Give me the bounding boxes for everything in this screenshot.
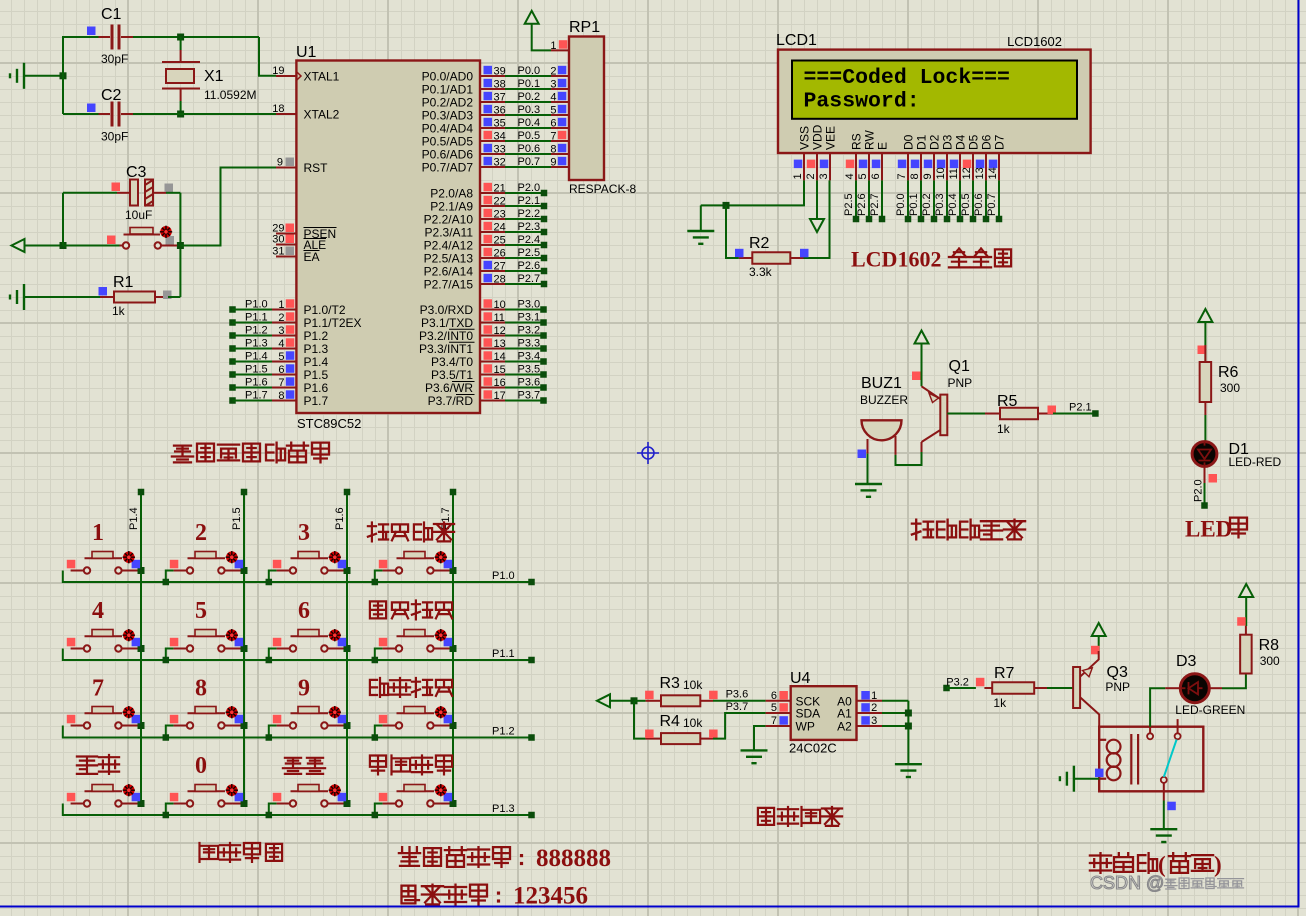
svg-text:===Coded Lock===: ===Coded Lock===	[804, 66, 1010, 90]
svg-text:P1.5: P1.5	[245, 364, 268, 376]
svg-text:P1.3: P1.3	[245, 338, 268, 350]
U1 pin 21 P2.0 stub	[480, 192, 505, 194]
svg-text:5: 5	[195, 598, 207, 624]
svg-text:2: 2	[871, 702, 877, 714]
wire	[634, 701, 646, 739]
svg-text:STC89C52: STC89C52	[297, 416, 361, 431]
button actuator	[329, 551, 341, 563]
wire WP to ground	[754, 726, 766, 750]
wire row P1.1	[63, 649, 532, 661]
svg-text:10uF: 10uF	[125, 208, 152, 222]
push button key r3c3	[269, 726, 277, 738]
ground (buzzer)	[855, 483, 882, 485]
svg-text:P3.1/TXD: P3.1/TXD	[421, 316, 473, 330]
ground (relay pole)	[1150, 828, 1177, 830]
push button (reset)	[63, 245, 120, 247]
key label 指纹开锁	[368, 523, 388, 542]
U1 pin 37 P0.2 / RP1 pin 4	[480, 101, 505, 103]
wire row P1.2	[63, 726, 532, 738]
ground arrow (R3 row)	[597, 694, 610, 707]
caption cunchu mokuai	[758, 808, 774, 825]
U1 pin 36 P0.3 / RP1 pin 5	[480, 114, 505, 116]
svg-text:P1.1: P1.1	[245, 312, 268, 324]
svg-text:P1.4: P1.4	[304, 355, 329, 369]
U1 pin 39 P0.0 / RP1 pin 2	[480, 75, 505, 77]
svg-text:D7: D7	[992, 134, 1006, 150]
resistor R8	[1240, 635, 1252, 674]
LCD1 body	[778, 50, 1091, 153]
wire net P2.7	[881, 180, 883, 219]
svg-text:P2.5: P2.5	[843, 193, 855, 216]
svg-text:P2.3/A11: P2.3/A11	[425, 226, 474, 240]
svg-text:4: 4	[92, 598, 104, 624]
svg-text:LED: LED	[1185, 517, 1232, 542]
svg-text:RW: RW	[862, 130, 876, 150]
wire net P2.0	[1204, 466, 1206, 483]
IC U4 24C02C body	[791, 686, 857, 740]
svg-text:C2: C2	[101, 87, 122, 104]
svg-text:P1.3: P1.3	[492, 803, 515, 815]
U1 pin 31 EA	[276, 256, 296, 258]
svg-text:21: 21	[494, 183, 506, 195]
svg-text:P0.6/AD6: P0.6/AD6	[422, 148, 474, 162]
svg-text:6: 6	[771, 690, 777, 702]
button actuator	[435, 784, 447, 796]
wire relay pole to ground	[1167, 802, 1176, 811]
U1 pin 12 P3.2 stub	[480, 335, 505, 337]
svg-text:P1.0: P1.0	[245, 299, 268, 311]
svg-text:4: 4	[844, 173, 856, 179]
svg-text:24: 24	[494, 222, 506, 234]
wire	[1222, 674, 1246, 689]
svg-text:CSDN @: CSDN @	[1090, 873, 1164, 893]
U1 pin 10 P3.0 stub	[480, 309, 505, 311]
svg-text:1: 1	[871, 690, 877, 702]
wire VDD power	[816, 180, 818, 219]
LED D3	[1180, 674, 1209, 703]
svg-text:P1.2: P1.2	[304, 329, 329, 343]
svg-text:10k: 10k	[683, 678, 703, 692]
svg-text:R2: R2	[749, 235, 770, 252]
wire	[259, 37, 276, 76]
wire	[1074, 778, 1099, 780]
button actuator	[435, 551, 447, 563]
ground (WP)	[741, 749, 768, 751]
caption chushi mima 123456	[402, 886, 420, 904]
svg-text:37: 37	[494, 92, 506, 104]
svg-text:P0.3: P0.3	[934, 193, 946, 216]
wire net P2.5	[855, 180, 857, 219]
resistor R1	[99, 287, 108, 296]
capacitor C3	[117, 192, 130, 194]
U1 pin 11 P3.1 stub	[480, 322, 505, 324]
svg-text:P1.5: P1.5	[304, 368, 329, 382]
svg-text:): )	[1214, 852, 1222, 877]
svg-text:30: 30	[272, 234, 284, 246]
caption juzhen jianpan	[200, 843, 219, 862]
svg-text:P1.6: P1.6	[304, 381, 329, 395]
svg-text:P3.2: P3.2	[946, 677, 969, 689]
svg-text:32: 32	[494, 157, 506, 169]
wire net P0.6	[985, 180, 987, 219]
svg-text:P1.7: P1.7	[304, 394, 329, 408]
wire row P1.0	[63, 571, 532, 583]
svg-text:P3.2: P3.2	[518, 325, 541, 337]
svg-text:35: 35	[494, 118, 506, 130]
wire	[921, 344, 923, 387]
svg-text:P2.5/A13: P2.5/A13	[424, 252, 474, 266]
svg-text:7: 7	[771, 715, 777, 727]
svg-text:P2.2: P2.2	[518, 208, 541, 220]
svg-text:P2.7: P2.7	[869, 193, 881, 216]
svg-text:P2.4: P2.4	[518, 234, 541, 246]
svg-text:R1: R1	[113, 274, 134, 291]
node	[60, 242, 67, 249]
U1 pin 17 P3.7 stub	[480, 400, 505, 402]
svg-text:300: 300	[1260, 654, 1280, 668]
svg-text:RST: RST	[304, 161, 329, 175]
svg-text:LCD1602: LCD1602	[1007, 34, 1062, 49]
relay core	[1130, 734, 1132, 785]
wire column P1.5	[243, 492, 245, 804]
relay lever	[1164, 740, 1177, 778]
svg-text:P0.0: P0.0	[895, 193, 907, 216]
svg-text:25: 25	[494, 235, 506, 247]
push button key r4c2	[166, 804, 174, 816]
wire	[1204, 322, 1206, 362]
svg-text:U4: U4	[790, 670, 811, 687]
U1 pin 26 P2.5 stub	[480, 257, 505, 259]
svg-text:P2.0/A8: P2.0/A8	[430, 187, 473, 201]
svg-text:RP1: RP1	[569, 19, 600, 36]
wire net P3.6	[713, 700, 766, 702]
svg-text:3: 3	[871, 715, 877, 727]
svg-text:PNP: PNP	[948, 376, 973, 390]
button actuator	[160, 226, 172, 238]
U1 left pin names	[304, 70, 362, 409]
svg-text:P0.7: P0.7	[518, 156, 541, 168]
power arrow (RP1)	[525, 11, 539, 24]
U1 right pin names	[419, 70, 473, 409]
button actuator	[435, 629, 447, 641]
svg-text:Q3: Q3	[1107, 664, 1128, 681]
svg-text:P3.0/RXD: P3.0/RXD	[420, 303, 474, 317]
capacitor C1	[99, 36, 111, 38]
svg-text:9: 9	[922, 173, 934, 179]
push button key r1c4	[375, 571, 383, 583]
wire column P1.6	[346, 492, 348, 804]
svg-text:123456: 123456	[513, 883, 588, 910]
wire	[168, 296, 180, 298]
push button key r2c4	[375, 649, 383, 661]
U1 pin 30 ALE	[276, 244, 296, 246]
svg-text:P1.5: P1.5	[231, 507, 243, 530]
svg-text:3.3k: 3.3k	[749, 265, 773, 279]
svg-text:9: 9	[298, 676, 310, 702]
svg-text:P3.7: P3.7	[518, 390, 541, 402]
svg-text:6: 6	[298, 598, 310, 624]
wire net P0.1	[920, 180, 922, 219]
wire	[1204, 415, 1206, 441]
svg-text:P2.7/A15: P2.7/A15	[424, 278, 474, 292]
wire	[62, 193, 64, 246]
resistor R2	[790, 257, 803, 259]
svg-text:R7: R7	[994, 665, 1015, 682]
svg-text:P1.4: P1.4	[128, 507, 140, 530]
svg-text:P2.6: P2.6	[518, 260, 541, 272]
U1 pin 8 P1.7 stub	[229, 397, 236, 404]
svg-text:VSS: VSS	[797, 126, 811, 150]
origin marker	[637, 442, 659, 464]
key label 确定	[283, 758, 303, 774]
svg-text:P2.6/A14: P2.6/A14	[424, 265, 474, 279]
svg-text:10k: 10k	[683, 716, 703, 730]
button actuator	[123, 629, 135, 641]
svg-text:LCD1602: LCD1602	[851, 247, 941, 272]
button actuator	[329, 784, 341, 796]
button actuator	[329, 706, 341, 718]
U1 pin 33 P0.6 / RP1 pin 8	[480, 153, 505, 155]
U4 pin 7 WP	[766, 725, 791, 727]
svg-text:P3.0: P3.0	[518, 299, 541, 311]
U1 pin 22 P2.1 stub	[480, 205, 505, 207]
svg-text:1k: 1k	[112, 304, 126, 318]
push button key r4c4	[375, 804, 383, 816]
button actuator	[123, 784, 135, 796]
svg-text:28: 28	[494, 274, 506, 286]
wire row P1.3	[63, 804, 532, 816]
ground arrow (reset row)	[12, 239, 25, 252]
button actuator	[226, 784, 238, 796]
svg-text:P0.5: P0.5	[960, 193, 972, 216]
svg-text:P3.7: P3.7	[726, 701, 749, 713]
U1 pin 6 P1.5 stub	[229, 371, 236, 378]
svg-text:A1: A1	[837, 707, 852, 721]
svg-text:P0.0: P0.0	[518, 65, 541, 77]
resistor R3	[646, 700, 661, 702]
svg-text:7: 7	[896, 173, 908, 179]
U1 pin 5 P1.4 stub	[229, 358, 236, 365]
button actuator	[123, 551, 135, 563]
svg-text:15: 15	[494, 364, 506, 376]
U1 pin 35 P0.4 / RP1 pin 6	[480, 127, 505, 129]
svg-text:P3.2/INT0: P3.2/INT0	[419, 329, 473, 343]
svg-text:30pF: 30pF	[101, 130, 128, 144]
wire	[1098, 636, 1100, 651]
wire	[1047, 687, 1073, 689]
wire	[532, 24, 551, 51]
node X1 bottom	[177, 111, 184, 118]
svg-text:13: 13	[974, 167, 986, 179]
svg-text:14: 14	[494, 351, 506, 363]
node	[631, 697, 638, 704]
svg-text:P3.3: P3.3	[518, 338, 541, 350]
node junction left	[60, 72, 67, 79]
svg-text:P0.2: P0.2	[921, 193, 933, 216]
wire	[610, 700, 634, 702]
svg-text:P2.4/A12: P2.4/A12	[424, 239, 474, 253]
svg-text:5: 5	[278, 351, 284, 363]
svg-text:3: 3	[298, 520, 310, 546]
push button key r2c1	[71, 648, 84, 650]
svg-text:9: 9	[277, 157, 283, 169]
svg-text:12: 12	[494, 325, 506, 337]
svg-text:LED-RED: LED-RED	[1229, 455, 1282, 469]
U1 pin 34 P0.5 / RP1 pin 7	[480, 140, 505, 142]
IC U1 STC89C52 body	[296, 61, 480, 414]
svg-text:19: 19	[272, 65, 284, 77]
svg-text:P3.3/INT1: P3.3/INT1	[419, 342, 473, 356]
svg-text:34: 34	[494, 131, 506, 143]
U1 pin 19 XTAL1	[276, 75, 296, 77]
svg-text:P0.4/AD4: P0.4/AD4	[422, 122, 474, 136]
relay coil	[1099, 739, 1106, 741]
svg-text:2: 2	[805, 173, 817, 179]
U1 pin 1 P1.0 stub	[229, 306, 236, 313]
svg-text:A2: A2	[837, 720, 852, 734]
wire net P0.0	[907, 180, 909, 219]
resistor R6	[1204, 345, 1206, 362]
wire VEE	[804, 180, 830, 258]
svg-text:1: 1	[550, 40, 556, 52]
wire	[63, 192, 117, 194]
key label 添加指纹	[370, 601, 386, 618]
svg-text:D3: D3	[940, 134, 954, 150]
svg-text:P0.1: P0.1	[518, 78, 541, 90]
svg-text:P1.4: P1.4	[245, 351, 268, 363]
svg-text:P2.0: P2.0	[1192, 479, 1204, 502]
svg-text:P0.6: P0.6	[973, 193, 985, 216]
svg-text:888888: 888888	[536, 845, 611, 872]
svg-text:P0.7: P0.7	[986, 193, 998, 216]
key label 重置密码	[370, 756, 386, 775]
svg-text:16: 16	[494, 377, 506, 389]
push button key r2c2	[166, 649, 174, 661]
node	[723, 202, 730, 209]
wire column P1.4	[140, 492, 142, 804]
wire	[179, 193, 181, 297]
wire	[133, 36, 259, 38]
wire	[896, 452, 922, 465]
svg-text:300: 300	[1220, 381, 1240, 395]
U1 pin 16 P3.6 stub	[480, 387, 505, 389]
relay box	[1099, 727, 1203, 792]
U1 pin 9 RST	[276, 167, 296, 169]
svg-text:8: 8	[195, 676, 207, 702]
svg-text:7: 7	[92, 676, 104, 702]
caption jidianqi zhileng	[1090, 853, 1111, 873]
U1 pin 3 P1.2 stub	[229, 332, 236, 339]
wire net P3.2	[943, 685, 950, 692]
svg-text:P1.0/T2: P1.0/T2	[304, 303, 346, 317]
svg-text:P3.6: P3.6	[726, 689, 749, 701]
svg-text:P0.6: P0.6	[518, 143, 541, 155]
svg-text:P3.1: P3.1	[518, 312, 541, 324]
push button key r3c2	[166, 726, 174, 738]
svg-text:6: 6	[870, 173, 882, 179]
U1 pin 28 P2.7 stub	[480, 283, 505, 285]
svg-text:2: 2	[278, 312, 284, 324]
svg-text:P2.2/A10: P2.2/A10	[424, 213, 474, 227]
svg-text:BUZZER: BUZZER	[860, 393, 908, 407]
wire column P1.7	[452, 492, 454, 804]
power arrow (D1)	[1198, 309, 1212, 322]
U1 pin 23 P2.2 stub	[480, 218, 505, 220]
push button key r3c4	[375, 726, 383, 738]
svg-text:P1.6: P1.6	[245, 377, 268, 389]
svg-text:BUZ1: BUZ1	[861, 375, 902, 392]
key label 删除指纹	[370, 678, 388, 697]
ground (crystal)	[23, 63, 25, 89]
svg-text:R6: R6	[1218, 364, 1239, 381]
U1 pin 24 P2.3 stub	[480, 231, 505, 233]
watermark CSDN	[1090, 873, 1164, 893]
svg-text:P2.5: P2.5	[518, 247, 541, 259]
U1 pin 2 P1.1 stub	[229, 319, 236, 326]
svg-text:P2.1: P2.1	[1069, 402, 1092, 414]
svg-text:P0.2/AD2: P0.2/AD2	[422, 96, 474, 110]
buzzer BUZ1	[862, 420, 902, 440]
svg-text:P1.1/T2EX: P1.1/T2EX	[304, 316, 362, 330]
svg-text:P0.7/AD7: P0.7/AD7	[422, 161, 474, 175]
caption danpianji zuixiao xitong	[172, 446, 193, 463]
svg-text:8: 8	[278, 390, 284, 402]
svg-text:P3.5: P3.5	[518, 364, 541, 376]
svg-text:P1.7: P1.7	[245, 390, 268, 402]
wire	[1245, 597, 1247, 626]
svg-text:26: 26	[494, 248, 506, 260]
sheet border blue	[1298, 0, 1300, 908]
wire net P0.4	[959, 180, 961, 219]
wire RST	[180, 168, 276, 246]
svg-text:PNP: PNP	[1105, 680, 1130, 694]
wire	[24, 75, 63, 77]
svg-text:C1: C1	[101, 6, 122, 23]
svg-text:1: 1	[278, 299, 284, 311]
svg-text:E: E	[875, 142, 889, 150]
svg-text:P1.6: P1.6	[334, 507, 346, 530]
U1 pin 38 P0.1 / RP1 pin 3	[480, 88, 505, 90]
svg-text:2: 2	[195, 520, 207, 546]
push button key r1c1	[71, 570, 84, 572]
power arrow (Q3)	[1092, 623, 1106, 636]
svg-text:22: 22	[494, 196, 506, 208]
svg-text:8: 8	[909, 173, 921, 179]
svg-text:5: 5	[857, 173, 869, 179]
svg-text:RS: RS	[849, 133, 863, 150]
U1 pin 25 P2.4 stub	[480, 244, 505, 246]
LCD screen	[792, 61, 1077, 119]
svg-text:38: 38	[494, 79, 506, 91]
button actuator	[226, 706, 238, 718]
svg-text:P2.6: P2.6	[856, 193, 868, 216]
crystal X1	[180, 50, 182, 62]
svg-text:P3.7/RD: P3.7/RD	[428, 394, 474, 408]
svg-text:D0: D0	[901, 134, 915, 150]
svg-text:R5: R5	[997, 393, 1018, 410]
svg-text:C3: C3	[126, 164, 147, 181]
svg-text:P0.4: P0.4	[518, 117, 541, 129]
svg-text:D5: D5	[966, 134, 980, 150]
svg-text:4: 4	[278, 338, 284, 350]
key label 清除	[77, 757, 97, 774]
svg-text:1k: 1k	[993, 696, 1007, 710]
svg-text:EA: EA	[304, 250, 320, 264]
svg-text:7: 7	[278, 377, 284, 389]
svg-text:31: 31	[272, 246, 284, 258]
wire A0-A2 to ground	[882, 700, 908, 702]
caption fengmingqi yinxiao	[912, 520, 933, 540]
